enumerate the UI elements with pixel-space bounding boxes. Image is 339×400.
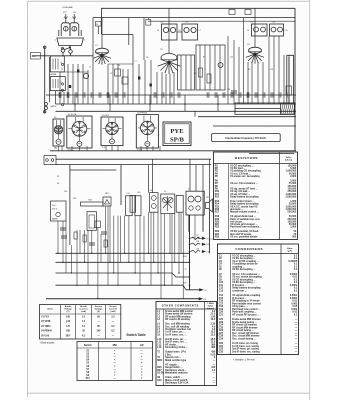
output transformer T6 [186,191,204,215]
IF transformer T1 (L5 L6) [162,24,178,40]
junction [69,47,70,48]
mains voltage panel [51,201,67,221]
thermistor box [87,212,96,231]
wire: L2 to bus [55,91,57,104]
wire: V1 anode lead [101,18,103,48]
capacitor row on heater bus [59,92,289,98]
fuse link F2 [96,22,102,27]
wire: V2 anode lead [168,8,170,53]
PYE SP/B model label [163,122,191,146]
junction dots on buses [57,253,179,300]
wire: valveholder leads [59,146,161,151]
valve V1 (schematic symbol) [93,48,111,64]
on/off switch S13 [69,50,73,54]
wire bundle: IF stage couplings [162,18,289,104]
wire: R1 stub [147,18,149,20]
fuse box F3 [229,10,235,15]
arrowhead: to LS [199,298,202,300]
volume control R10 [286,86,292,95]
wire: plug frame [59,30,81,36]
table: Switch Table [77,342,153,381]
wire: speaker feed [213,125,296,127]
aerial coil L2 [50,77,65,91]
IF transformer T4 (L10) [270,24,284,36]
wire: AVC feed vertical [202,165,204,232]
wire: HT vertical [120,165,122,205]
loudspeaker LS [206,199,213,212]
wire: dropper feed [92,18,94,104]
wavechange switch contact S9 [191,237,201,239]
valve V2 (schematic symbol) [158,54,181,75]
junction dots on HT bus [74,103,219,105]
wire bundle: tuning gang and oscillator [60,60,157,104]
smoothing choke L12 [126,196,133,216]
chassis base (hatched) [281,103,295,114]
wire: osc grid verticals [128,18,130,45]
wire: chassis bus [56,110,297,112]
driver transformer T5 [150,193,158,213]
wire: coil return [48,57,50,102]
wire: osc anode link [102,34,134,36]
arrowhead: to CG [200,289,203,291]
wire: gram socket vertical [189,215,191,290]
trimmer capacitor C2 [115,69,121,76]
table: valve operating voltages [40,305,121,340]
wire: field coil lead [249,153,294,155]
wire: HT feed to output section [56,158,212,160]
wire: bus AVC [56,285,200,290]
capacitor C32 [60,227,66,229]
wire: bus HT+ [56,252,190,254]
wire: AVC bus [148,20,295,22]
output valve electrodes [163,196,172,211]
valveholder V4 PEN25 base diagram [136,115,158,148]
output valve network [161,194,175,214]
aerial down-lead [44,47,46,113]
IF transformer T2 (L7 L8) [182,24,198,40]
wire: long chassis rail [50,150,296,152]
dial assembly box [235,103,295,114]
wavechange switch contact S10 [191,243,201,245]
wire: HT distribution bus [56,103,297,105]
table: CONDENSERS [218,244,299,355]
resistor R22 [104,240,107,247]
valveholder V2 FC2A base diagram [67,116,92,148]
wire: HT top bus [102,8,296,34]
wire: output lead [198,116,296,118]
screening box [178,55,195,90]
wire: bus chassis return [46,298,199,300]
terminal: aerial bottom [43,111,46,114]
wire: bus heater [56,273,190,277]
trimmer capacitor C4 [122,77,128,84]
electrolytic C40 [135,196,141,216]
capacitor C24 [231,90,237,92]
valveholder V1 base diagram [53,119,64,146]
table: OTHER COMPONENTS [156,302,217,386]
plug sockets [61,23,70,36]
resistor R18 (dropper) [81,202,104,206]
wire: heater bus [93,17,295,19]
wire: output drop [194,111,196,116]
fuse box F4 [245,10,251,15]
wire: bus earth [56,261,190,263]
voltage adjustment panel [31,53,41,60]
metal rectifier MR1 [103,197,111,206]
wire: output stage vertical [189,159,191,191]
wire: AVC line [56,164,212,166]
junction dots on gram vertical [189,238,191,287]
terminal: aerial top [43,46,46,49]
wire: dial box divider [235,108,281,110]
wire: mains bus [32,55,93,57]
wire ties between buses [75,95,218,111]
padder capacitor C13 [83,73,88,78]
resistor R6 [199,68,203,77]
pickup terminal block [44,156,56,165]
tone capacitor block [176,195,183,212]
wire: mains lead [69,45,71,47]
junction blobs [69,70,152,89]
resistor R7 [207,74,211,83]
aerial coil L1 [50,56,64,72]
resistor R21 [83,235,86,242]
frame aerial (right) [287,55,294,103]
wire: heater distribution bus [46,94,296,96]
valve V3 (schematic symbol) [246,47,264,63]
wire drops: AF section to buses [58,206,210,299]
wire: right HT rail [294,8,296,151]
screening box 2 [196,45,225,90]
resistor R1 (top) [146,20,151,26]
resistor R15 [74,232,77,239]
coupling link [177,31,182,33]
AE terminal block mid-left [45,103,48,106]
capacitor C37 [89,242,95,244]
mains plug body [57,38,84,45]
fuse F1 [61,49,65,53]
wire: V3 anode lead [254,8,256,47]
capacitor C35 [61,235,67,237]
wire: mains dropper branch [70,165,116,245]
coupling stage box [130,195,136,212]
capacitor C21 [218,63,223,68]
IF transformer T3 (L9) [252,24,268,36]
valveholder V3 VP2 base diagram [101,117,123,146]
table: RESISTORS [214,152,298,240]
coil terminals [61,47,63,105]
wire: gang link [60,71,88,73]
capacitor C34 [101,231,107,233]
resistor R19 [95,221,100,228]
wire: AF coupling verticals [148,165,150,193]
intermediate frequency label [212,134,281,142]
wavechange switch contact S11 [191,250,201,252]
wire: gram feed vertical [209,159,211,253]
